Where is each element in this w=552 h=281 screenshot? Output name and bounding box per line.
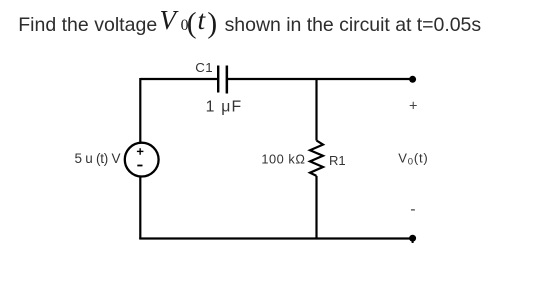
svg-text:100 kΩ: 100 kΩ: [261, 152, 305, 167]
svg-text:-: -: [410, 201, 415, 218]
svg-text:(: (: [187, 8, 197, 40]
svg-text:Find the voltage: Find the voltage: [18, 14, 157, 36]
svg-text:+: +: [409, 99, 417, 115]
svg-text:): ): [207, 8, 217, 40]
svg-text:V0(t): V0(t): [398, 151, 428, 168]
svg-text:C1: C1: [195, 60, 213, 75]
svg-text:shown in the circuit at t=0.05: shown in the circuit at t=0.05s: [225, 14, 482, 36]
svg-text:1 μF: 1 μF: [206, 99, 242, 116]
svg-text:5 u (t) V: 5 u (t) V: [75, 151, 121, 166]
svg-text:R1: R1: [329, 153, 346, 168]
svg-text:t: t: [198, 4, 207, 35]
svg-text:V: V: [160, 5, 180, 35]
